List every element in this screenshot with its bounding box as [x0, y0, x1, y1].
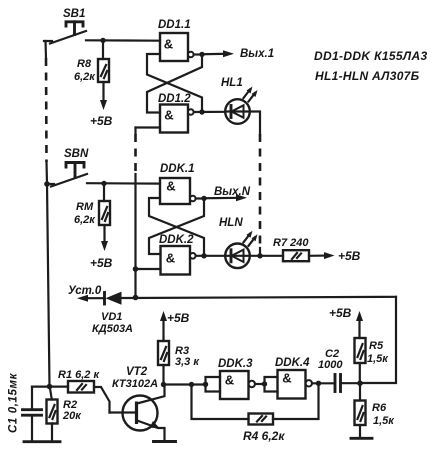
svg-text:+5В: +5В [329, 306, 352, 320]
svg-text:Уст.0: Уст.0 [68, 285, 102, 297]
svg-text:R7 240: R7 240 [273, 237, 309, 249]
svg-text:&: & [164, 37, 173, 52]
svg-text:Вых.1: Вых.1 [240, 48, 274, 60]
svg-text:С1 0,15мк: С1 0,15мк [8, 372, 20, 433]
svg-text:&: & [164, 108, 173, 123]
svg-text:R5: R5 [369, 340, 384, 352]
svg-text:VT2: VT2 [126, 366, 148, 378]
svg-text:HL1-HLN АЛ307Б: HL1-HLN АЛ307Б [315, 69, 420, 83]
svg-text:&: & [166, 179, 175, 194]
svg-text:SB1: SB1 [63, 8, 85, 20]
svg-text:DDK.4: DDK.4 [275, 357, 310, 369]
svg-text:RM: RM [76, 201, 94, 213]
svg-text:DD1.2: DD1.2 [158, 93, 191, 105]
svg-text:+5В: +5В [338, 249, 361, 263]
svg-text:+5В: +5В [90, 256, 113, 270]
svg-text:&: & [225, 373, 234, 388]
svg-text:6,2к: 6,2к [74, 214, 96, 226]
svg-text:R1 6,2 к: R1 6,2 к [58, 369, 100, 381]
svg-text:VD1: VD1 [101, 311, 122, 323]
svg-text:DD1-DDK К155ЛА3: DD1-DDK К155ЛА3 [314, 49, 428, 63]
svg-text:HLN: HLN [219, 217, 243, 229]
svg-text:R4 6,2к: R4 6,2к [243, 429, 285, 443]
svg-text:6,2к: 6,2к [74, 71, 96, 83]
svg-text:+5В: +5В [167, 311, 190, 325]
svg-text:HL1: HL1 [221, 77, 243, 89]
svg-text:DD1.1: DD1.1 [158, 19, 191, 31]
svg-text:20к: 20к [62, 410, 82, 422]
svg-text:1,5к: 1,5к [373, 415, 395, 427]
svg-text:3,3 к: 3,3 к [175, 356, 200, 368]
svg-text:DDK.1: DDK.1 [160, 163, 195, 175]
svg-text:1,5к: 1,5к [367, 353, 389, 365]
svg-text:DDK.2: DDK.2 [159, 234, 194, 246]
svg-text:КТ3102А: КТ3102А [112, 378, 158, 390]
svg-text:КД503А: КД503А [92, 323, 133, 335]
svg-text:Вых.N: Вых.N [214, 186, 251, 198]
svg-text:+5В: +5В [90, 114, 113, 128]
svg-text:1000: 1000 [318, 359, 343, 371]
svg-text:R6: R6 [372, 402, 387, 414]
svg-text:DDK.3: DDK.3 [218, 358, 253, 370]
svg-text:&: & [282, 371, 291, 386]
svg-text:R8: R8 [77, 58, 92, 70]
svg-text:&: & [166, 251, 175, 266]
svg-text:SBN: SBN [64, 148, 89, 160]
